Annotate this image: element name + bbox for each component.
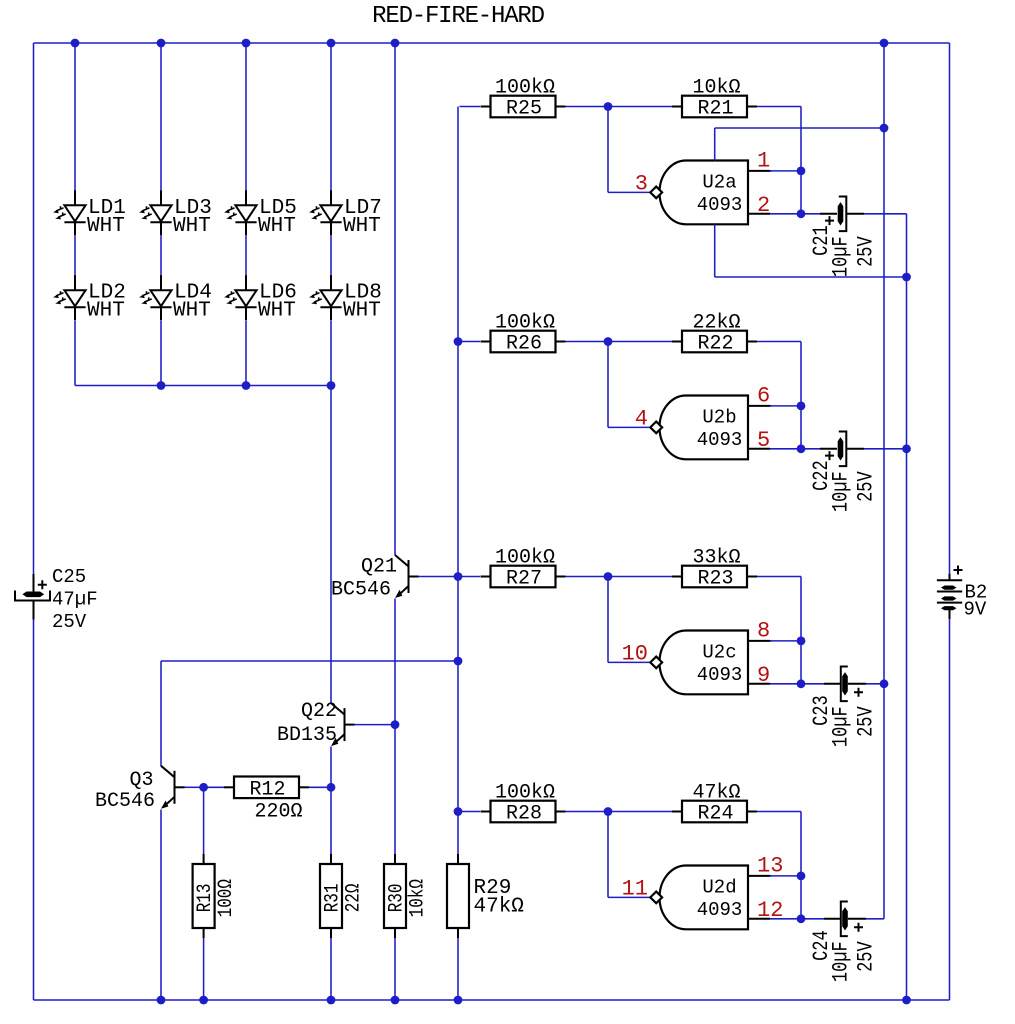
- op-amp/NAND gate U2b 4093: [660, 396, 749, 460]
- svg-text:BC546: BC546: [95, 790, 155, 813]
- wire R21 to pin column: [757, 106, 801, 108]
- inverter bubble of U2a: [650, 187, 662, 199]
- wire U2d output drop: [607, 812, 609, 898]
- svg-text:BC546: BC546: [331, 579, 391, 602]
- pin 1 stub: [748, 170, 770, 172]
- svg-text:U2a: U2a: [702, 171, 736, 193]
- wire LED column 2 bottom: [160, 321, 162, 386]
- svg-text:220Ω: 220Ω: [254, 800, 302, 823]
- resistor R28: [481, 811, 491, 813]
- svg-text:R13: R13: [193, 884, 216, 913]
- wire feedback column U2b: [800, 342, 802, 449]
- wire R22 to pin column: [757, 341, 801, 343]
- wire R29 to bottom bus: [457, 938, 459, 1000]
- svg-text:4093: 4093: [697, 899, 743, 921]
- pin 2 stub: [748, 213, 770, 215]
- pin 6 stub: [748, 405, 770, 407]
- junction rail x458 / R28 row: [454, 807, 463, 816]
- LED LD8: [330, 275, 332, 290]
- wire U2b output drop: [607, 342, 609, 428]
- svg-text:WHT: WHT: [343, 215, 381, 238]
- junction top bus / column 4: [327, 39, 336, 48]
- svg-text:10µF: 10µF: [829, 236, 854, 277]
- junction Q22 base / rail x395: [391, 720, 400, 729]
- svg-text:R23: R23: [697, 568, 733, 591]
- wire LED column 1 bottom: [74, 321, 76, 386]
- wire rail x458 to R27: [460, 576, 481, 578]
- wire U2a VSS pin 7: [714, 224, 716, 277]
- svg-text:4093: 4093: [697, 664, 743, 686]
- svg-text:U2b: U2b: [702, 406, 736, 428]
- LED LD7: [330, 190, 332, 205]
- resistor R31: [330, 854, 332, 864]
- wire LED cathode bus: [75, 385, 331, 387]
- resistor R26: [481, 341, 491, 343]
- wire rail x458 to R26: [460, 341, 481, 343]
- wire node to R23: [612, 576, 672, 578]
- resistor R12: [224, 786, 234, 788]
- wire pin 8 connect: [770, 640, 772, 642]
- svg-text:25V: 25V: [854, 471, 879, 502]
- svg-text:WHT: WHT: [87, 215, 125, 238]
- wire Q21 base to R27 node: [419, 576, 457, 578]
- svg-text:4: 4: [635, 406, 648, 431]
- battery B2 9V: [949, 574, 951, 581]
- junction R26 / R22 / U2b output: [604, 337, 613, 346]
- LED LD2: [74, 275, 76, 290]
- wire U2b output to bubble: [608, 426, 650, 428]
- wire R24 to pin column: [757, 811, 801, 813]
- resistor R13: [203, 854, 205, 864]
- LED LD4: [160, 275, 162, 290]
- wire U2b pin 6: [770, 405, 801, 407]
- svg-text:10kΩ: 10kΩ: [692, 77, 740, 100]
- wire Q3 collector drop: [160, 661, 162, 766]
- junction pin 12: [797, 914, 806, 923]
- junction pin 2: [797, 209, 806, 218]
- op-amp/NAND gate U2c 4093: [660, 631, 749, 695]
- svg-text:WHT: WHT: [173, 215, 211, 238]
- wire rail x884 (VDD rail): [883, 43, 885, 919]
- pin 12 stub: [748, 918, 770, 920]
- wire C23 to rail x884: [866, 683, 884, 685]
- svg-text:R22: R22: [697, 333, 733, 356]
- wire rail x458 (oscillator input rail): [457, 107, 459, 855]
- capacitor C25 47µF 25V: [33, 574, 35, 592]
- svg-text:R26: R26: [506, 333, 542, 356]
- wire LED column 4 top: [330, 43, 332, 191]
- junction bottom bus / R29: [454, 996, 463, 1005]
- svg-text:100kΩ: 100kΩ: [495, 782, 555, 805]
- wire U2d output to bubble: [608, 896, 650, 898]
- wire LED column 3 bottom: [245, 321, 247, 386]
- junction C22 / rail x906: [902, 444, 911, 453]
- resistor R21: [672, 106, 682, 108]
- svg-text:22Ω: 22Ω: [342, 884, 365, 913]
- wire node to R21: [612, 106, 672, 108]
- junction top bus / column 1: [71, 39, 80, 48]
- wire between LD3 and LD4: [160, 236, 162, 276]
- svg-text:25V: 25V: [854, 706, 879, 737]
- svg-text:Q21: Q21: [361, 556, 397, 579]
- svg-text:3: 3: [635, 171, 648, 196]
- wire LED column 3 top: [245, 43, 247, 191]
- capacitor C23: [842, 672, 848, 695]
- svg-text:4093: 4093: [697, 194, 743, 216]
- transistor Q3: [161, 766, 174, 777]
- svg-text:R12: R12: [249, 778, 285, 801]
- junction rail x458 / R26 row: [454, 337, 463, 346]
- wire pin 2 to C21: [801, 213, 820, 215]
- resistor R23: [672, 576, 682, 578]
- svg-text:WHT: WHT: [87, 300, 125, 323]
- wire rail x395 upper: [394, 43, 396, 555]
- resistor R30: [394, 854, 396, 864]
- junction Q3 base / R12 / R13: [199, 783, 208, 792]
- wire U2a output drop: [607, 107, 609, 193]
- wire pin 2 connect: [770, 213, 801, 215]
- wire rail x395 lower: [394, 599, 396, 855]
- pin 5 stub: [748, 448, 770, 450]
- wire left rail lower: [33, 620, 35, 1001]
- wire R13 top: [203, 787, 205, 854]
- wire right rail lower (battery -): [949, 619, 951, 1000]
- wire feedback column U2a: [800, 107, 802, 214]
- svg-text:R28: R28: [506, 803, 542, 826]
- wire feedback column U2d: [800, 812, 802, 919]
- wire left rail upper: [33, 43, 35, 574]
- inverter bubble of U2c: [650, 657, 662, 669]
- svg-text:WHT: WHT: [258, 300, 296, 323]
- svg-text:U2d: U2d: [702, 876, 736, 898]
- wire U2c output drop: [607, 577, 609, 663]
- svg-text:47kΩ: 47kΩ: [474, 896, 524, 919]
- resistor R25: [481, 106, 491, 108]
- junction pin 9: [797, 679, 806, 688]
- wire pin 9 connect: [770, 683, 801, 685]
- wire R31 to bottom bus: [330, 938, 332, 1000]
- wire pin 1 connect: [770, 170, 772, 172]
- wire LED column 4 bottom: [330, 321, 332, 386]
- junction rail x458 / Q22 collector net: [454, 657, 463, 666]
- wire VSS to rail x906: [715, 276, 907, 278]
- wire node to R24: [612, 811, 672, 813]
- capacitor C21: [838, 202, 844, 225]
- svg-text:10µF: 10µF: [829, 941, 854, 982]
- svg-text:4093: 4093: [697, 429, 743, 451]
- LED LD6: [245, 275, 247, 290]
- svg-text:R27: R27: [506, 568, 542, 591]
- svg-text:22kΩ: 22kΩ: [692, 312, 740, 335]
- op-amp/NAND gate U2a 4093: [660, 161, 749, 225]
- transistor Q22: [331, 703, 344, 714]
- LED LD5: [245, 190, 247, 205]
- junction LED bus / column 3: [242, 381, 251, 390]
- junction VSS / rail x906: [902, 273, 911, 282]
- svg-text:C25: C25: [52, 566, 86, 588]
- wire C22 to rail x906: [864, 448, 907, 450]
- junction bottom bus / R31: [327, 996, 336, 1005]
- junction bottom bus / R13: [199, 996, 208, 1005]
- wire rail x458 to R28: [460, 811, 481, 813]
- wire Q3 emitter to bottom bus: [160, 810, 162, 1001]
- wire rail x331 LED bus to Q22: [330, 386, 332, 704]
- op-amp/NAND gate U2d 4093: [660, 866, 749, 930]
- wire R13 to bottom bus: [203, 938, 205, 1000]
- wire R12 to Q22 emitter rail: [309, 786, 329, 788]
- wire feedback column U2c: [800, 577, 802, 684]
- svg-text:RED-FIRE-HARD: RED-FIRE-HARD: [372, 3, 544, 30]
- junction top bus / column 2: [157, 39, 166, 48]
- wire pin 5 connect: [770, 448, 801, 450]
- capacitor C24: [842, 907, 848, 930]
- wire Q22 base to rail x395: [355, 724, 394, 726]
- wire right rail upper (battery +): [949, 43, 951, 574]
- svg-text:Q22: Q22: [301, 700, 337, 723]
- junction rail x458 / R27 row / Q21 base: [454, 572, 463, 581]
- wire U2d pin 13: [770, 875, 801, 877]
- junction pin 5: [797, 444, 806, 453]
- wire node Q3-collector to rail x458: [161, 660, 458, 662]
- junction R28 / R24 / U2d output: [604, 807, 613, 816]
- wire pin 9 to C23: [801, 683, 824, 685]
- wire R25 to node: [566, 106, 605, 108]
- wire pin 13 connect: [770, 875, 772, 877]
- wire pin 6 connect: [770, 405, 772, 407]
- svg-text:11: 11: [622, 876, 648, 901]
- wire node to R22: [612, 341, 672, 343]
- svg-text:47µF: 47µF: [52, 589, 98, 611]
- junction bottom bus / rail x906: [902, 996, 911, 1005]
- wire R23 to pin column: [757, 576, 801, 578]
- wire LED column 2 top: [160, 43, 162, 191]
- pin 8 stub: [748, 640, 770, 642]
- junction R27 / R23 / U2c output: [604, 572, 613, 581]
- resistor R27: [481, 576, 491, 578]
- wire between LD1 and LD2: [74, 236, 76, 276]
- svg-text:BD135: BD135: [277, 724, 337, 747]
- junction LED bus / column 4: [327, 381, 336, 390]
- svg-text:25V: 25V: [854, 941, 879, 972]
- wire U2c output to bubble: [608, 661, 650, 663]
- wire R28 to node: [566, 811, 605, 813]
- capacitor C22: [838, 437, 844, 460]
- wire node to R12: [204, 786, 226, 788]
- junction top bus / rail x884: [880, 39, 889, 48]
- svg-text:R31: R31: [321, 884, 344, 913]
- resistor R24: [672, 811, 682, 813]
- junction bottom bus / Q3 emitter: [157, 996, 166, 1005]
- svg-text:U2c: U2c: [702, 641, 736, 663]
- pin 13 stub: [748, 875, 770, 877]
- svg-text:WHT: WHT: [343, 300, 381, 323]
- svg-text:100kΩ: 100kΩ: [495, 312, 555, 335]
- junction pin 1: [797, 167, 806, 176]
- wire pin 12 to C24: [801, 918, 824, 920]
- wire VDD to rail x884: [715, 127, 884, 129]
- inverter bubble of U2d: [650, 892, 662, 904]
- svg-text:100kΩ: 100kΩ: [495, 547, 555, 570]
- svg-text:25V: 25V: [854, 236, 879, 267]
- svg-text:10µF: 10µF: [829, 706, 854, 747]
- svg-text:33kΩ: 33kΩ: [692, 547, 740, 570]
- inverter bubble of U2b: [650, 422, 662, 434]
- junction C23 / rail x884: [880, 679, 889, 688]
- wire rail x906 (VSS rail): [906, 214, 908, 1000]
- wire U2a pin 1: [770, 170, 801, 172]
- junction VDD / rail x884: [880, 124, 889, 133]
- resistor R29: [457, 854, 459, 864]
- wire R27 to node: [566, 576, 605, 578]
- svg-text:9V: 9V: [964, 599, 987, 621]
- wire Q22 emitter to R31: [330, 747, 332, 855]
- junction R25 / R21 / U2a output: [604, 102, 613, 111]
- junction pin 13: [797, 872, 806, 881]
- wire U2a output to bubble: [608, 191, 650, 193]
- wire C21 to rail x906: [864, 213, 907, 215]
- svg-text:10kΩ: 10kΩ: [406, 879, 429, 917]
- junction top bus / column 3: [242, 39, 251, 48]
- svg-text:WHT: WHT: [258, 215, 296, 238]
- junction pin 8: [797, 637, 806, 646]
- wire C24 to rail x884 end: [866, 918, 884, 920]
- svg-text:100kΩ: 100kΩ: [495, 77, 555, 100]
- svg-text:R21: R21: [697, 98, 733, 121]
- wire between LD5 and LD6: [245, 236, 247, 276]
- svg-text:10: 10: [622, 641, 648, 666]
- LED LD1: [74, 190, 76, 205]
- junction bottom bus / R30: [391, 996, 400, 1005]
- junction pin 6: [797, 402, 806, 411]
- LED LD3: [160, 190, 162, 205]
- transistor Q21: [395, 555, 408, 566]
- svg-text:R30: R30: [385, 884, 408, 913]
- svg-text:47kΩ: 47kΩ: [692, 782, 740, 805]
- wire U2c pin 8: [770, 640, 801, 642]
- svg-text:R24: R24: [697, 803, 733, 826]
- wire R30 to bottom bus: [394, 938, 396, 1000]
- junction LED bus / column 2: [157, 381, 166, 390]
- junction R12 / rail x331: [327, 783, 336, 792]
- wire LED column 1 top: [74, 43, 76, 191]
- pin 9 stub: [748, 683, 770, 685]
- svg-text:25V: 25V: [52, 611, 87, 633]
- wire R26 to node: [566, 341, 605, 343]
- wire U2a VDD pin 14: [714, 128, 716, 161]
- wire Q3 base to R12: [185, 786, 201, 788]
- wire rail x458 to R25: [460, 106, 481, 108]
- wire pin 12 connect: [770, 918, 801, 920]
- wire pin 5 to C22: [801, 448, 820, 450]
- svg-text:WHT: WHT: [173, 300, 211, 323]
- svg-text:Q3: Q3: [129, 769, 153, 792]
- junction top bus / rail x395: [391, 39, 400, 48]
- svg-text:100Ω: 100Ω: [214, 879, 237, 917]
- wire between LD7 and LD8: [330, 236, 332, 276]
- resistor R22: [672, 341, 682, 343]
- svg-text:R25: R25: [506, 98, 542, 121]
- wire bottom bus: [34, 999, 950, 1001]
- wire top supply bus: [34, 42, 950, 44]
- svg-text:10µF: 10µF: [829, 471, 854, 512]
